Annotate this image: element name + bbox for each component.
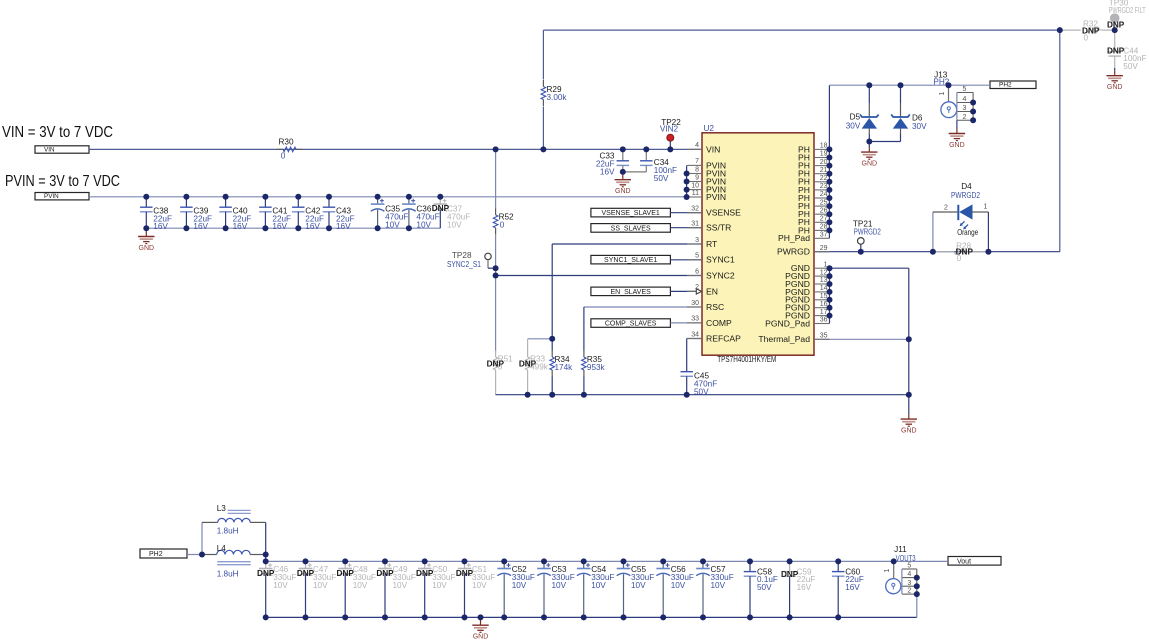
svg-text:21: 21 [820,167,828,174]
U2 pin 3 RT [687,243,702,245]
zener diode D6 [891,85,927,141]
ground under C44 [1107,68,1123,91]
zener diode D5 [846,85,879,141]
svg-text:16V: 16V [797,583,812,592]
svg-text:PH2: PH2 [149,551,163,558]
LED D4 [933,204,989,251]
svg-text:0: 0 [500,221,505,230]
wire RSC drop to R35 [583,307,585,351]
svg-text:33: 33 [691,316,699,323]
svg-text:DNP: DNP [416,569,434,578]
svg-text:DNP: DNP [257,569,275,578]
svg-text:VIN: VIN [44,146,55,153]
capacitor C50 (polarized DNP) [418,561,432,617]
svg-text:1: 1 [984,203,988,210]
capacitor C42 [292,197,305,228]
svg-text:17: 17 [820,309,828,316]
svg-text:VIN2: VIN2 [660,125,679,134]
capacitor C49 (polarized DNP) [378,561,392,617]
resistor R32 (DNP) [1060,29,1081,31]
wire J11 shield drop [916,594,918,617]
svg-text:GND: GND [949,142,965,149]
svg-text:DNP: DNP [297,569,315,578]
svg-text:SYNC2_S1: SYNC2_S1 [447,260,481,269]
capacitor C39 [180,197,193,228]
svg-text:TP28: TP28 [452,251,472,260]
wire PVIN rail [89,196,687,198]
svg-text:30V: 30V [846,121,861,130]
resistor R35 [582,351,587,377]
wire REFCAP stub [687,338,702,340]
svg-text:23: 23 [820,183,828,190]
svg-text:GND: GND [862,161,878,168]
inductor L4 [202,554,217,556]
svg-text:3.00k: 3.00k [547,93,568,102]
U2 pin 21 PH [814,173,830,175]
ground under C33/C34 [615,172,631,195]
svg-text:25: 25 [820,199,828,206]
U2 pin 17 PGND [814,315,830,317]
svg-text:DNP: DNP [519,359,537,368]
svg-text:0: 0 [957,254,962,263]
svg-text:5: 5 [695,253,699,260]
capacitor C37 (DNP polarized) [434,197,448,228]
U2 pin 7 PVIN [687,164,702,166]
test point TP30 (DNP) [1110,13,1120,23]
U2 pin 15 PGND [814,299,830,301]
wire right vertical PWRGD2 drop [1059,30,1061,252]
U2 pin 31 SS/TR [687,227,702,229]
resistor R34 [550,351,555,377]
svg-text:50V: 50V [654,174,669,183]
wire Thermal_Pad to GND vertical [814,338,909,340]
U2 pin 8 PVIN [687,173,702,175]
svg-text:TPS7H4001HKY/EM: TPS7H4001HKY/EM [717,355,776,364]
wire RT drop to R34 [551,244,553,351]
svg-text:COMP: COMP [706,318,732,328]
ground right of U2 [901,411,917,434]
svg-text:10V: 10V [671,581,686,590]
wire PH to J13/PH2 [829,84,990,86]
U2 pin 2 EN [687,290,702,292]
ground under D5 [861,144,877,167]
U2 pin 29 PWRGD [814,251,830,253]
wire R52 top lead from VIN [495,149,497,208]
U2 pin 11 PVIN [687,196,702,198]
svg-text:DNP: DNP [456,569,474,578]
net label COMP_SLAVES [591,319,671,328]
U2 pin 34 REFCAP [687,338,702,340]
svg-text:16V: 16V [336,222,351,231]
svg-text:DNP: DNP [781,570,799,579]
svg-text:10V: 10V [447,220,462,229]
svg-text:10V: 10V [591,581,606,590]
wire SYNC1 box to pin [670,259,702,261]
capacitor C46 (polarized DNP) [259,561,273,617]
U2 pin 37 PH_Pad [814,237,830,239]
svg-text:16V: 16V [193,222,208,231]
svg-text:J11: J11 [894,545,907,554]
svg-text:GND: GND [615,188,631,195]
U2 pin 25 PH [814,205,830,207]
svg-text:174k: 174k [555,363,574,372]
connector J11 [884,561,917,594]
U2 pin 33 COMP [687,322,702,324]
wire L3 right riser [265,522,267,554]
wire SYNC2 horizontal [496,275,702,277]
svg-text:D5: D5 [850,113,861,122]
U2 pin 23 PH [814,189,830,191]
svg-text:953k: 953k [587,363,606,372]
svg-text:28: 28 [820,224,828,231]
resistor R33 (DNP) [525,351,530,377]
svg-text:PGND_Pad: PGND_Pad [765,318,810,328]
svg-text:30: 30 [691,300,699,307]
svg-text:24: 24 [820,191,828,198]
wire RT horizontal [552,243,702,245]
svg-text:37: 37 [820,232,828,239]
svg-text:DNP: DNP [432,204,450,213]
svg-text:36: 36 [820,317,828,324]
svg-text:GND: GND [139,245,155,252]
capacitor C59 (DNP) [783,561,796,617]
inductor L3 [202,521,218,523]
svg-text:GND: GND [901,428,917,435]
wire output cap ground rail [266,616,917,618]
capacitor C36 (polarized) [402,197,416,228]
wire SS/TR box to pin [670,227,702,229]
svg-text:3: 3 [907,580,911,587]
wire REFCAP drop to C45 [686,339,688,370]
svg-text:L3: L3 [217,504,227,513]
wire C33 C34 gnd link [623,171,647,173]
net label Vout [948,557,1001,566]
capacitor C57 (polarized) [696,561,710,617]
wire R34 bottom lead [551,377,553,395]
net label VIN [35,146,89,154]
svg-text:20: 20 [820,159,828,166]
wire TP30 stub [1114,23,1116,30]
capacitor C47 (polarized DNP) [299,561,313,617]
svg-text:3: 3 [962,105,966,112]
test point TP22 (VIN2) [667,134,674,141]
wire R33 bottom lead [527,377,529,395]
wire RSC horizontal [584,306,702,308]
wire R33 branch horizontal [528,338,553,340]
svg-text:GND: GND [473,634,489,640]
wire EN box to pin [670,290,696,292]
svg-text:34: 34 [691,331,699,338]
svg-text:SYNC1: SYNC1 [706,255,735,265]
svg-text:SYNC1_SLAVE1: SYNC1_SLAVE1 [604,257,657,264]
U2 pin 36 PGND_Pad [814,323,830,325]
svg-text:10V: 10V [432,581,447,590]
U2 pin 27 PH [814,221,830,223]
test point TP21 (PWRGD2) [858,238,865,245]
svg-text:2: 2 [944,205,948,212]
U2 pin 9 PVIN [687,181,702,183]
U2 pin 28 PH [814,229,830,231]
net label PH2 top right [990,81,1036,89]
resistor R30 [277,147,303,152]
wire R51 bottom to ground rail [495,377,497,395]
svg-text:1: 1 [884,569,891,573]
svg-text:30V: 30V [912,122,927,131]
svg-text:35: 35 [820,333,828,340]
svg-text:16V: 16V [305,222,320,231]
svg-text:4: 4 [907,571,911,578]
svg-text:3: 3 [695,237,699,244]
U2 EN pin input arrow [696,289,701,294]
svg-text:COMP_SLAVES: COMP_SLAVES [605,321,657,328]
svg-text:Vout: Vout [957,558,971,565]
svg-text:4: 4 [962,96,966,103]
svg-text:DNP: DNP [1107,46,1125,55]
svg-text:SYNC2: SYNC2 [706,270,735,280]
wire R29 branch upper [542,30,544,79]
svg-text:10V: 10V [631,581,646,590]
capacitor C51 (polarized DNP) [458,561,472,617]
svg-text:4: 4 [695,142,699,149]
svg-text:R30: R30 [278,138,293,147]
resistor R51 (DNP) [493,351,498,377]
wire VSENSE box to pin [670,212,702,214]
wire R33 vertical [527,339,529,351]
U2 pin 4 VIN [687,148,702,150]
wire PH pin bus [828,85,830,238]
svg-text:2: 2 [907,588,911,595]
svg-text:31: 31 [691,221,699,228]
svg-text:6: 6 [695,268,699,275]
svg-text:SS/TR: SS/TR [706,223,731,233]
svg-text:7: 7 [695,158,699,165]
capacitor C43 [323,197,336,228]
svg-text:PWRGD2: PWRGD2 [854,228,881,237]
U2 pin 5 SYNC1 [687,259,702,261]
op-amp U2 body (TPS7H4001HKY/EM) [702,133,814,355]
svg-text:REFCAP: REFCAP [706,333,741,343]
svg-text:Orange: Orange [957,228,978,237]
svg-text:32: 32 [691,206,699,213]
wire PVIN pin bus [686,165,688,197]
svg-text:PVIN: PVIN [44,193,59,200]
U2 pin 16 PGND [814,307,830,309]
svg-text:16V: 16V [153,222,168,231]
svg-text:29: 29 [820,245,828,252]
capacitor C60 [832,561,845,617]
net label SS_SLAVES [591,224,671,233]
wire analog ground rail [496,394,909,396]
svg-text:10: 10 [691,182,699,189]
svg-text:50V: 50V [1123,62,1138,71]
ground under C38 [138,229,154,252]
U2 pin 14 PGND [814,291,830,293]
svg-text:DNP: DNP [376,569,394,578]
svg-text:26: 26 [820,207,828,214]
svg-text:10V: 10V [393,581,408,590]
svg-text:2: 2 [962,114,966,121]
svg-text:SS_SLAVES: SS_SLAVES [611,225,651,232]
wire GND pin bus [829,268,831,323]
wire R35 bottom lead [583,377,585,395]
svg-text:U2: U2 [704,124,715,133]
capacitor C48 (polarized DNP) [338,561,352,617]
svg-text:13: 13 [820,277,828,284]
svg-text:GND: GND [1107,84,1123,91]
svg-text:RSC: RSC [706,302,724,312]
capacitor C35 (polarized) [371,197,385,228]
U2 pin 20 PH [814,165,830,167]
svg-text:10V: 10V [385,220,400,229]
U2 pin 22 PH [814,181,830,183]
svg-text:1.8uH: 1.8uH [217,527,239,536]
svg-text:10V: 10V [313,581,328,590]
svg-text:PVIN: PVIN [706,192,726,202]
U2 pin 13 PGND [814,283,830,285]
svg-text:50V: 50V [694,387,709,396]
ground under J13 [949,126,965,149]
connector J11 pin dots [914,575,920,581]
svg-text:10V: 10V [273,581,288,590]
capacitor C41 [259,197,272,228]
wire top horizontal to PWRGD2 FILT [543,29,1059,31]
resistor R52 [493,208,498,234]
U2 pin 35 Thermal_Pad [814,338,830,340]
svg-text:22: 22 [820,175,828,182]
svg-text:EN: EN [706,286,718,296]
capacitor C34 [640,149,653,172]
wire GND pins to right vertical [830,267,909,269]
U2 pin 26 PH [814,213,830,215]
capacitor C58 [744,561,757,617]
net label PH2 bottom left [140,549,187,558]
svg-text:10V: 10V [353,581,368,590]
svg-text:5: 5 [907,563,911,570]
svg-text:16V: 16V [600,167,615,176]
svg-text:16V: 16V [845,583,860,592]
connector J13 pin dots [970,100,976,106]
wire L4 to output rail stub [265,555,267,562]
svg-text:L4: L4 [217,544,227,553]
wire R29 branch lower [542,107,544,150]
capacitor C54 (polarized) [577,561,591,617]
resistor R28 (DNP) [933,251,954,253]
capacitor C53 (polarized) [537,561,551,617]
svg-text:19: 19 [820,151,828,158]
svg-text:PWRGD2 FILT: PWRGD2 FILT [1109,6,1146,15]
capacitor C45 [680,370,693,395]
svg-text:VOUT3: VOUT3 [896,554,916,563]
svg-text:5: 5 [962,86,966,93]
svg-text:10V: 10V [472,581,487,590]
svg-text:1.8uH: 1.8uH [217,569,239,578]
ground under output caps [472,617,488,640]
wire R52 to SYNC2 node [495,234,497,351]
capacitor C38 [140,197,153,228]
net label EN_SLAVES [591,287,671,296]
capacitor C44 (DNP) [1108,30,1121,68]
svg-text:D6: D6 [912,113,923,122]
svg-text:8: 8 [695,166,699,173]
svg-text:PH_Pad: PH_Pad [778,233,810,243]
connector J13 [939,85,973,126]
svg-text:27: 27 [820,216,828,223]
net label PVIN [35,193,89,201]
svg-text:16V: 16V [233,222,248,231]
wire Vout top rail [266,560,948,562]
U2 pin 1 GND [814,267,830,269]
wire PWRGD horizontal [814,251,1060,253]
wire right GND vertical [908,268,910,411]
U2 pin 6 SYNC2 [687,275,702,277]
U2 pin 19 PH [814,157,830,159]
svg-text:VSENSE_SLAVE1: VSENSE_SLAVE1 [602,210,660,217]
test point TP28 (SYNC2_S1) [485,253,491,259]
svg-text:PH2: PH2 [999,82,1012,89]
svg-text:PWRGD2: PWRGD2 [951,191,980,200]
svg-text:VSENSE: VSENSE [706,208,741,218]
svg-text:11: 11 [692,190,699,197]
svg-text:EN_SLAVES: EN_SLAVES [610,289,651,296]
U2 pin 24 PH [814,197,830,199]
svg-text:1: 1 [939,92,946,96]
wire VIN rail [89,148,702,150]
svg-text:10V: 10V [512,581,527,590]
svg-text:Thermal_Pad: Thermal_Pad [758,334,810,344]
svg-text:50V: 50V [757,583,772,592]
capacitor C40 [219,197,232,228]
U2 pin 12 PGND [814,275,830,277]
net label VSENSE_SLAVE1 [591,208,671,217]
svg-text:VIN: VIN [706,144,720,154]
svg-text:18: 18 [820,143,828,150]
svg-text:15: 15 [820,293,828,300]
wire input cap ground rail [146,227,440,229]
svg-text:RT: RT [706,239,718,249]
wire PH2 label to L junction [187,554,202,556]
capacitor C52 (polarized) [497,561,511,617]
net label SYNC1_SLAVE1 [591,255,671,264]
svg-text:VIN = 3V to 7 VDC: VIN = 3V to 7 VDC [2,124,113,141]
svg-text:0: 0 [281,152,286,161]
capacitor C33 [617,149,630,172]
capacitor C56 (polarized) [656,561,670,617]
svg-text:9: 9 [695,174,699,181]
U2 pin 32 VSENSE [687,212,702,214]
svg-text:PWRGD: PWRGD [777,247,810,257]
svg-text:12: 12 [820,269,828,276]
svg-text:10V: 10V [711,581,726,590]
U2 pin 30 RSC [687,306,702,308]
wire L3 left riser [201,522,203,554]
svg-text:DNP: DNP [337,569,355,578]
wire COMP box to pin [670,322,702,324]
resistor R29 [541,80,546,106]
svg-text:PVIN = 3V to 7 VDC: PVIN = 3V to 7 VDC [5,173,120,190]
svg-text:10V: 10V [416,220,431,229]
svg-text:0: 0 [1084,33,1089,42]
svg-text:10V: 10V [552,581,567,590]
svg-text:D4: D4 [961,182,972,191]
U2 pin 18 PH [814,148,830,150]
capacitor C55 (polarized) [617,561,631,617]
svg-text:14: 14 [820,285,828,292]
U2 pin 10 PVIN [687,189,702,191]
svg-text:16V: 16V [272,222,287,231]
svg-text:16: 16 [820,301,828,308]
svg-text:DNP: DNP [487,359,505,368]
